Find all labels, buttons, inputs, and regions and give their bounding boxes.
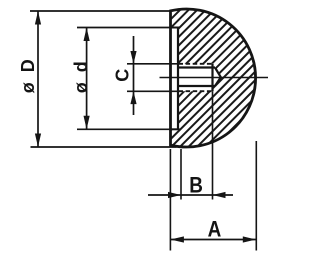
- dim ød extension line top: [77, 27, 170, 29]
- svg-text:ø d: ø d: [71, 59, 91, 94]
- dome outline (flat face + spherical surface): [171, 9, 256, 147]
- dim B dimension line: [148, 194, 233, 196]
- dim C arrow up (below): [130, 91, 136, 104]
- dim C extension line top: [127, 63, 179, 65]
- drilled pilot hole top edge: [178, 66, 215, 68]
- dim ød dimension line: [86, 28, 88, 130]
- dim ød extension line bottom: [77, 128, 170, 130]
- dim A arrow left: [170, 236, 184, 242]
- dim C arrow down (above): [130, 51, 136, 64]
- thread end line: [211, 64, 213, 91]
- svg-text:B: B: [189, 173, 203, 198]
- recess face edge: [177, 28, 179, 130]
- dim ød arrow up: [84, 28, 90, 42]
- thread major diameter top (dashed): [179, 63, 214, 65]
- dim øD arrow down: [35, 134, 41, 148]
- dim øD extension line bottom: [31, 146, 177, 148]
- dim A extension line right: [255, 141, 257, 251]
- dim øD dimension line: [37, 11, 39, 147]
- dim B arrow right (outside left): [168, 192, 181, 198]
- recess void (counterbore on flat face): [171, 28, 179, 130]
- dim B extension line right (continues thread end line): [212, 91, 214, 199]
- svg-text:ø D: ø D: [18, 57, 38, 94]
- centerline: [160, 77, 269, 79]
- svg-text:A: A: [208, 217, 222, 242]
- tapped hole void with drill point: [179, 64, 221, 91]
- dim B extension line left: [180, 149, 182, 200]
- dim A dimension line: [170, 239, 256, 241]
- dim C extension line bottom: [127, 90, 179, 92]
- thread major diameter bottom (dashed): [179, 90, 214, 92]
- dim C dimension line: [133, 36, 135, 115]
- recess top step edge: [169, 27, 179, 29]
- dim ød arrow down: [84, 116, 90, 130]
- dim B arrow left (outside right): [213, 192, 226, 198]
- dim øD arrow up: [35, 11, 41, 25]
- dim A arrow right: [243, 236, 256, 242]
- dim øD extension line top: [30, 10, 171, 12]
- svg-text:C: C: [113, 69, 133, 82]
- dim A extension line left: [169, 149, 171, 251]
- recess bottom step edge: [169, 128, 179, 130]
- drilled pilot hole bottom edge: [178, 85, 215, 87]
- drill point cone: [215, 68, 221, 87]
